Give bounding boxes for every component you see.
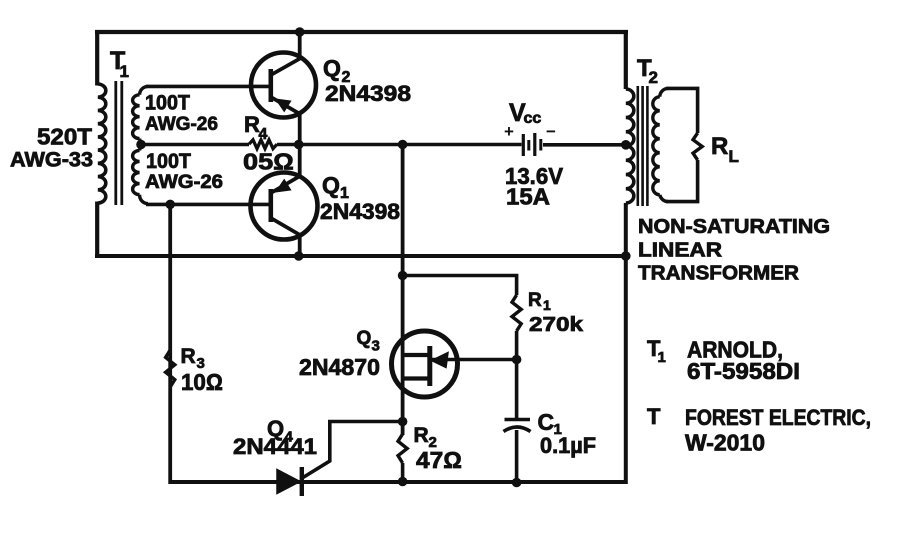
transformer T2 core: [638, 86, 648, 206]
label R1 value 270k: [529, 314, 584, 336]
wire oscillator branch vertical: [401, 145, 405, 436]
svg-text:2N4398: 2N4398: [320, 199, 400, 224]
transformer T1 secondary upper winding: [133, 86, 148, 144]
transformer T1 primary winding: [98, 84, 106, 203]
wire T2 secondary top / load: [666, 88, 698, 133]
wire RL bottom / load return: [666, 160, 698, 202]
resistor R4: [249, 140, 277, 149]
junction Vcc line branch: [398, 140, 408, 150]
label 100T upper: [145, 92, 190, 115]
svg-text:LINEAR: LINEAR: [638, 240, 723, 262]
resistor R2 47ohm: [398, 434, 407, 463]
svg-text:TRANSFORMER: TRANSFORMER: [638, 263, 800, 285]
capacitor C1 top plate: [505, 418, 531, 422]
transformer T2 primary winding: [626, 89, 634, 203]
svg-text:2N4398: 2N4398: [325, 81, 411, 106]
label Q4 part 2N4441: [233, 434, 317, 459]
label R4: [244, 112, 268, 143]
label Q4: [267, 416, 294, 446]
junction Q2 collector on top rail: [295, 27, 305, 37]
junction Q3 emitter / R1-C1: [512, 355, 522, 365]
wire left rail upper: [95, 30, 99, 86]
svg-text:3: 3: [372, 338, 380, 355]
wire R3 branch vertical: [168, 204, 172, 484]
label AWG-26 upper: [145, 114, 218, 135]
junction R3 tap: [165, 200, 175, 210]
svg-text:2N4441: 2N4441: [233, 434, 317, 459]
label R2: [414, 424, 437, 451]
label RL: [711, 133, 739, 166]
junction C1 bottom rail: [512, 478, 522, 488]
transformer T2 secondary winding: [653, 88, 668, 201]
svg-text:10Ω: 10Ω: [181, 369, 223, 395]
svg-text:L: L: [729, 147, 739, 166]
wire R1 top: [403, 276, 517, 296]
svg-text:R: R: [181, 345, 196, 368]
label linear: [638, 240, 723, 262]
svg-text:Q: Q: [322, 172, 340, 198]
label R1: [528, 290, 551, 313]
label battery minus: [546, 122, 556, 141]
transformer T1 core: [116, 81, 122, 205]
label Q1: [322, 172, 349, 202]
label Q2 part 2N4398: [325, 81, 411, 106]
svg-text:6T-5958DI: 6T-5958DI: [687, 358, 800, 384]
label 520T: [37, 124, 92, 150]
wire right rail lower: [624, 203, 628, 484]
transistor Q1 2N4398: [251, 144, 318, 257]
label Q1 part 2N4398: [320, 199, 400, 224]
svg-text:R: R: [414, 424, 429, 447]
junction T1 center tap: [136, 140, 146, 150]
wire battery to T2 center tap: [543, 143, 627, 147]
wire top rail: [95, 30, 628, 34]
label T2: [637, 55, 658, 87]
svg-text:1: 1: [120, 62, 129, 81]
svg-text:R: R: [711, 133, 728, 160]
label R3: [181, 345, 205, 372]
note T1 maker ARNOLD: [687, 337, 783, 363]
junction R1 branch: [398, 271, 408, 281]
wire C1 bottom: [515, 430, 519, 483]
note T1 part 6T-5958DI: [687, 358, 800, 384]
label R2 value 47ohm: [416, 447, 462, 473]
transistor Q2 2N4398: [251, 30, 316, 146]
note T maker FOREST ELECTRIC: [685, 405, 871, 430]
label non-saturating: [638, 216, 830, 238]
transformer T1 secondary lower winding: [133, 145, 148, 204]
svg-text:520T: 520T: [37, 124, 92, 150]
junction mid rail / right rail: [621, 251, 631, 261]
transistor Q3 UJT 2N4870: [392, 331, 517, 397]
thyristor Q4 cathode bar: [300, 467, 304, 496]
label Vcc: [509, 99, 541, 127]
label Q2: [323, 55, 351, 86]
svg-text:100T: 100T: [145, 92, 190, 115]
junction R2 bottom rail: [398, 477, 408, 487]
junction R4 right / emitters: [294, 140, 304, 150]
svg-text:FOREST ELECTRIC,: FOREST ELECTRIC,: [685, 405, 871, 430]
junction T2 primary center tap: [621, 140, 631, 150]
svg-text:1: 1: [658, 349, 666, 366]
label Vcc current 15A: [506, 184, 550, 210]
label AWG-33: [10, 149, 93, 172]
resistor RL load: [693, 133, 702, 160]
note T1 designator: [647, 336, 666, 366]
capacitor C1 curved plate: [504, 427, 531, 432]
label Q3 part 2N4870: [299, 354, 380, 380]
battery Vcc 13.6V: [523, 133, 541, 156]
junction Q1 collector on mid rail: [294, 251, 304, 261]
note T designator: [647, 404, 661, 429]
svg-text:cc: cc: [524, 110, 542, 127]
svg-text:Q: Q: [323, 55, 341, 81]
wire Q1 base: [146, 203, 271, 207]
label T1: [110, 47, 129, 81]
wire mid rail: [95, 254, 626, 258]
wire R4 to battery: [277, 143, 522, 147]
svg-text:NON-SATURATING: NON-SATURATING: [638, 216, 830, 238]
svg-text:0.1µF: 0.1µF: [540, 433, 596, 458]
resistor R1 270k: [512, 295, 521, 331]
note T part W-2010: [685, 430, 765, 456]
svg-text:15A: 15A: [506, 184, 550, 210]
wire R1 to C1: [515, 331, 519, 420]
label battery plus: [504, 122, 514, 141]
label R4 value 0.5 ohm: [243, 149, 294, 175]
wire Q4 gate: [303, 422, 403, 478]
svg-text:R: R: [528, 290, 542, 311]
label Q3: [357, 328, 380, 355]
label C1: [538, 409, 562, 438]
wire right rail upper: [624, 30, 628, 89]
svg-text:AWG-26: AWG-26: [145, 172, 223, 193]
svg-text:270k: 270k: [529, 314, 584, 336]
label Vcc value 13.6V: [505, 163, 564, 189]
label transformer: [638, 263, 800, 285]
label 100T lower: [146, 150, 191, 173]
junction gate wire / R2 top: [398, 417, 408, 427]
label AWG-26 lower: [145, 172, 223, 193]
svg-text:4: 4: [259, 126, 268, 143]
svg-text:AWG-26: AWG-26: [145, 114, 218, 135]
svg-text:Q: Q: [357, 328, 372, 349]
wire bottom rail: [169, 480, 628, 484]
resistor R3 10ohm: [166, 350, 175, 387]
svg-text:W-2010: W-2010: [685, 430, 765, 456]
svg-text:2: 2: [649, 68, 658, 87]
svg-text:1: 1: [543, 297, 551, 313]
wire Q2 base: [146, 85, 271, 89]
wire R2 bottom: [401, 463, 405, 483]
wire center tap to R4: [140, 143, 249, 147]
svg-text:−: −: [546, 122, 556, 141]
svg-text:2N4870: 2N4870: [299, 354, 380, 380]
label R3 value 10ohm: [181, 369, 223, 395]
svg-text:100T: 100T: [146, 150, 191, 173]
wire left rail lower: [95, 202, 99, 259]
svg-text:47Ω: 47Ω: [416, 447, 462, 473]
thyristor Q4 2N4441 anode triangle: [277, 470, 300, 494]
svg-text:T: T: [647, 404, 661, 429]
label C1 value 0.1uF: [540, 433, 596, 458]
svg-text:AWG-33: AWG-33: [10, 149, 93, 172]
svg-text:C: C: [538, 409, 555, 435]
